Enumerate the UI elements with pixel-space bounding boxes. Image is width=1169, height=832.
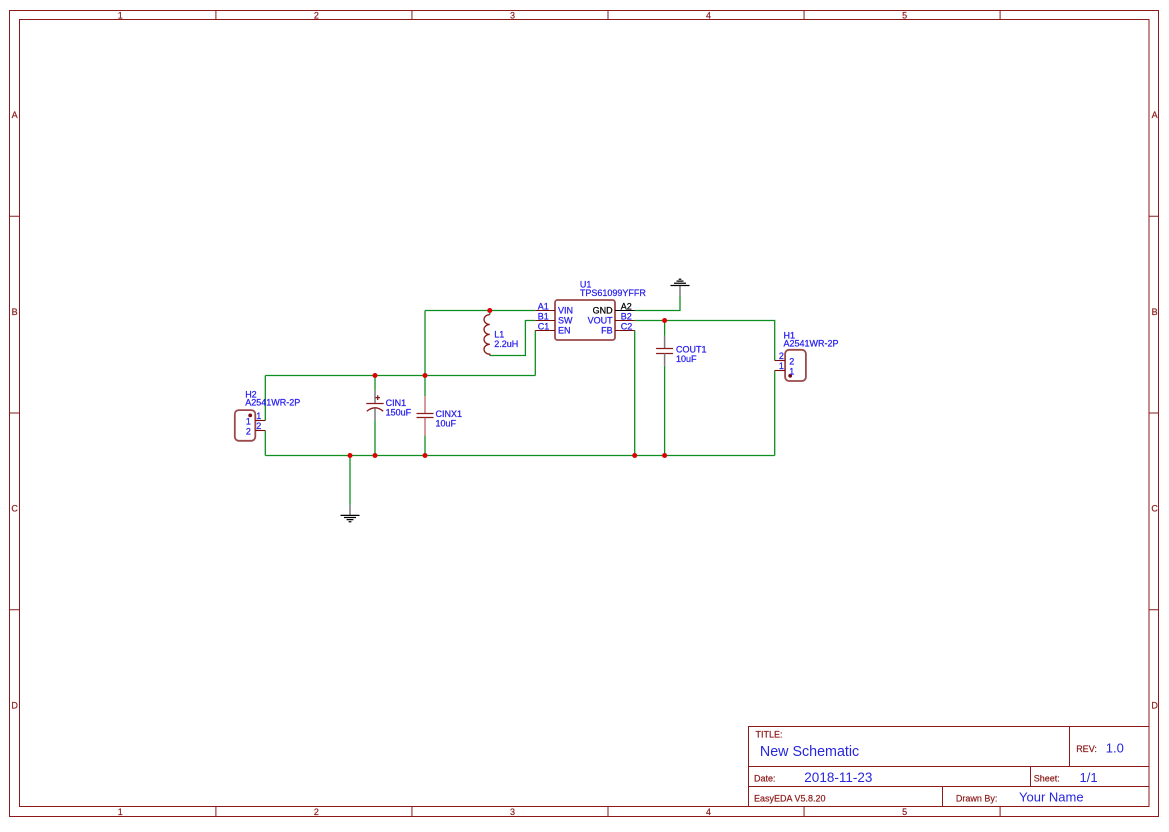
- capacitor COUT1 (10uF): [656, 336, 673, 366]
- wire VOUT rail: [635, 321, 775, 361]
- U1 pin A2 GND: [593, 301, 635, 315]
- U1 pin B1 SW: [535, 311, 573, 325]
- svg-text:4: 4: [706, 11, 711, 21]
- svg-text:TPS61099YFFR: TPS61099YFFR: [580, 288, 647, 298]
- svg-text:2: 2: [246, 427, 251, 437]
- junction on VIN rail at L1: [487, 308, 492, 313]
- svg-text:C: C: [1151, 504, 1158, 514]
- junction bottom rail COUT1: [662, 453, 667, 458]
- svg-text:10uF: 10uF: [676, 354, 697, 364]
- H1 label: [784, 330, 839, 348]
- svg-text:150uF: 150uF: [386, 408, 412, 418]
- wire H2 vertical: [264, 376, 266, 421]
- wire middle rail: [265, 375, 535, 377]
- svg-text:10uF: 10uF: [436, 418, 457, 428]
- wire CIN1 top: [374, 376, 376, 391]
- H1 pin 2: [775, 351, 795, 367]
- H2 pin 2: [246, 421, 265, 436]
- svg-text:2: 2: [314, 11, 319, 21]
- svg-text:CIN1: CIN1: [386, 398, 407, 408]
- ground symbol bottom: [341, 505, 360, 522]
- wire VIN rail: [425, 310, 535, 312]
- svg-text:FB: FB: [601, 325, 613, 335]
- junction middle rail CIN1: [373, 373, 378, 378]
- junction VOUT rail COUT1: [662, 318, 667, 323]
- svg-text:New Schematic: New Schematic: [760, 744, 859, 760]
- H1 pin 1: [775, 361, 795, 376]
- svg-text:1: 1: [118, 807, 123, 817]
- svg-text:EasyEDA V5.8.20: EasyEDA V5.8.20: [754, 794, 826, 804]
- svg-text:Date:: Date:: [754, 774, 776, 784]
- wire CINX1 bottom: [424, 435, 426, 455]
- svg-text:1: 1: [256, 411, 261, 421]
- svg-text:3: 3: [510, 11, 515, 21]
- svg-text:B2: B2: [621, 311, 632, 321]
- junction bottom rail CINX1: [423, 453, 428, 458]
- wire COUT1 bottom: [664, 366, 666, 456]
- wire COUT1 top: [664, 321, 666, 336]
- svg-text:5: 5: [902, 11, 907, 21]
- junction bottom rail ground: [348, 453, 353, 458]
- capacitor CIN1 (polarized 150uF): [366, 390, 383, 420]
- svg-text:VOUT: VOUT: [588, 315, 614, 325]
- wire H2 pin2 vertical: [264, 431, 266, 456]
- wire VIN vertical: [424, 311, 426, 376]
- wire SW to L1: [490, 321, 535, 356]
- svg-text:2: 2: [314, 807, 319, 817]
- svg-text:SW: SW: [558, 315, 573, 325]
- svg-text:C: C: [11, 504, 18, 514]
- CIN1 label 150uF: [386, 398, 412, 418]
- svg-text:2: 2: [789, 357, 794, 367]
- svg-text:3: 3: [510, 807, 515, 817]
- svg-text:2: 2: [256, 421, 261, 431]
- svg-text:2018-11-23: 2018-11-23: [804, 770, 872, 785]
- L1 label 2.2uH: [494, 330, 518, 349]
- svg-text:A: A: [1152, 110, 1158, 120]
- capacitor CINX1 (10uF): [417, 396, 434, 435]
- wire ground stem: [349, 456, 351, 505]
- svg-text:1: 1: [789, 366, 794, 376]
- CINX1 label 10uF: [436, 409, 463, 429]
- svg-text:1: 1: [779, 361, 784, 371]
- svg-text:D: D: [11, 700, 18, 710]
- svg-text:A2541WR-2P: A2541WR-2P: [784, 338, 839, 348]
- junction bottom rail CIN1: [373, 453, 378, 458]
- ground symbol top (U1 GND): [671, 279, 690, 296]
- svg-text:Your Name: Your Name: [1019, 790, 1084, 805]
- wire GND of U1 to ground: [635, 296, 680, 311]
- svg-text:Sheet:: Sheet:: [1034, 774, 1060, 784]
- svg-text:B: B: [1152, 307, 1158, 317]
- svg-text:EN: EN: [558, 325, 571, 335]
- COUT1 label 10uF: [676, 345, 707, 364]
- svg-text:REV:: REV:: [1076, 744, 1097, 754]
- svg-text:A1: A1: [538, 301, 549, 311]
- svg-text:A2541WR-2P: A2541WR-2P: [245, 398, 300, 408]
- U1 label: [580, 280, 647, 299]
- svg-text:1: 1: [246, 416, 251, 426]
- svg-text:C1: C1: [538, 321, 550, 331]
- title block: [749, 727, 1150, 807]
- svg-text:C2: C2: [621, 321, 633, 331]
- H2 pin 1: [246, 411, 265, 426]
- svg-text:B1: B1: [538, 311, 549, 321]
- wire bottom rail: [265, 455, 774, 457]
- header H2 A2541WR-2P: [235, 410, 256, 441]
- wire CIN1 bottom: [374, 420, 376, 455]
- svg-text:A2: A2: [621, 301, 632, 311]
- svg-text:2.2uH: 2.2uH: [494, 339, 518, 349]
- U1 pin C1 EN: [535, 321, 570, 335]
- svg-text:D: D: [1151, 700, 1158, 710]
- svg-text:A: A: [12, 110, 18, 120]
- wire CINX1 top: [424, 376, 426, 397]
- svg-text:GND: GND: [593, 305, 614, 315]
- header H1 A2541WR-2P: [785, 350, 806, 381]
- U1 pin B2 VOUT: [588, 311, 635, 325]
- wire L1 top stub: [489, 311, 491, 315]
- svg-text:CINX1: CINX1: [436, 409, 463, 419]
- svg-text:1: 1: [118, 11, 123, 21]
- U1 pin C2 FB: [601, 321, 635, 335]
- H2 label: [245, 390, 300, 408]
- svg-text:Drawn By:: Drawn By:: [956, 794, 998, 804]
- wire EN riser: [534, 331, 536, 376]
- junction middle rail CINX1: [423, 373, 428, 378]
- U1 pin A1 VIN: [535, 301, 573, 315]
- wire FB drop: [634, 331, 636, 456]
- svg-text:VIN: VIN: [558, 305, 573, 315]
- inductor L1: [484, 315, 490, 356]
- svg-text:TITLE:: TITLE:: [756, 729, 783, 739]
- svg-text:B: B: [12, 307, 18, 317]
- svg-text:5: 5: [902, 807, 907, 817]
- junction bottom rail FB: [632, 453, 637, 458]
- svg-text:1/1: 1/1: [1080, 770, 1098, 785]
- IC U1 TPS61099YFFR: [555, 300, 615, 340]
- svg-text:4: 4: [706, 807, 711, 817]
- svg-text:2: 2: [779, 351, 784, 361]
- svg-text:1.0: 1.0: [1106, 740, 1124, 755]
- wire H1 pin1 vertical: [774, 371, 776, 456]
